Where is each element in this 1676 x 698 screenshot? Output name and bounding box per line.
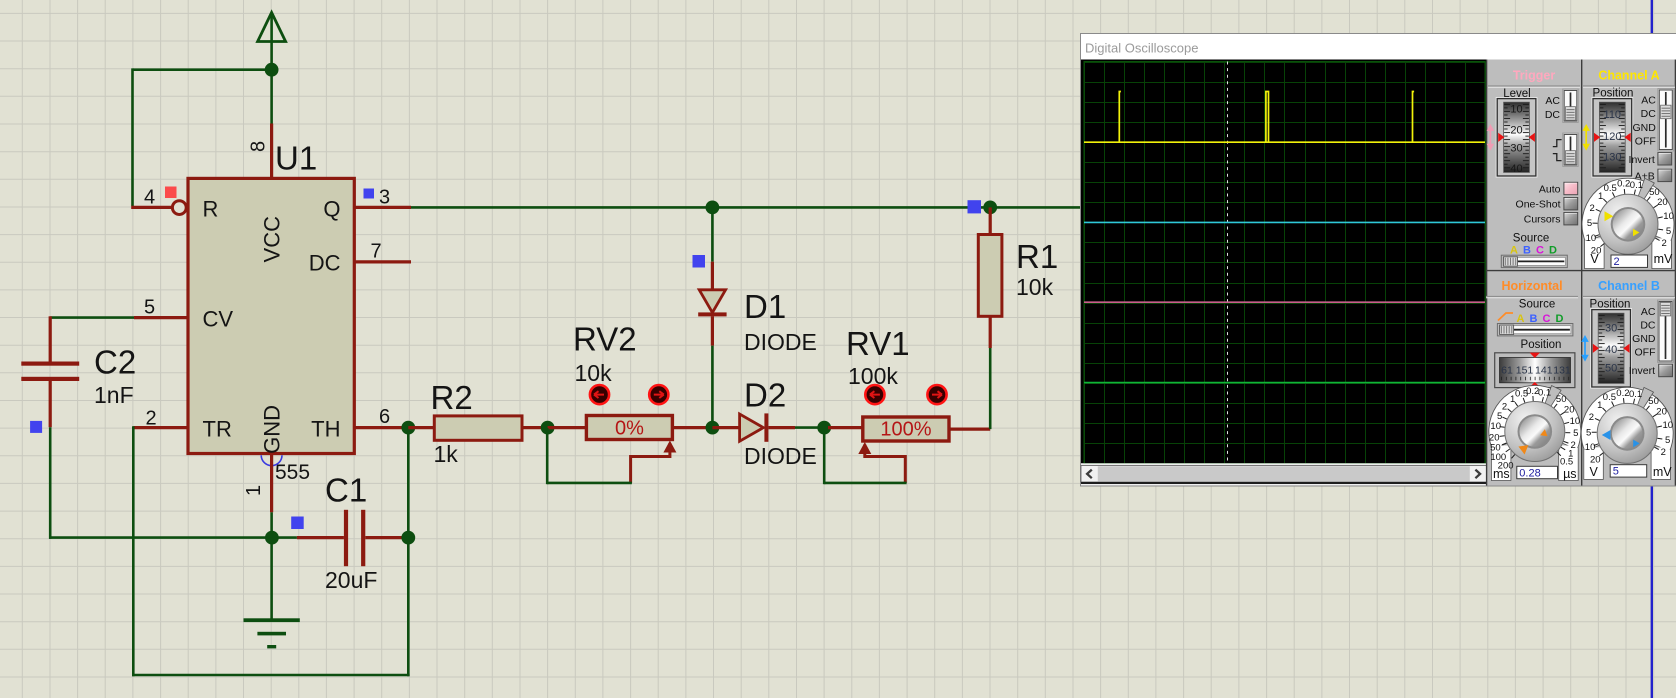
oscilloscope screen — [1081, 60, 1487, 464]
RV1 wiper arrow — [858, 442, 905, 483]
Horizontal source slider — [1497, 324, 1573, 336]
svg-text:Invert: Invert — [1629, 154, 1655, 166]
svg-text:R: R — [203, 197, 219, 222]
svg-text:µs: µs — [1563, 467, 1576, 481]
svg-text:CV: CV — [203, 307, 234, 332]
svg-text:5: 5 — [1573, 428, 1578, 439]
svg-text:1: 1 — [243, 485, 265, 496]
svg-text:2: 2 — [1502, 401, 1507, 412]
resistor R1 — [978, 207, 1002, 429]
capacitor C2 — [21, 316, 79, 539]
svg-text:0.28: 0.28 — [1519, 467, 1540, 479]
svg-text:Horizontal: Horizontal — [1501, 279, 1562, 293]
junction D1 bottom — [706, 421, 720, 435]
horizontal scrollbar — [1081, 463, 1487, 465]
svg-text:20: 20 — [1656, 406, 1667, 417]
svg-text:TR: TR — [203, 417, 232, 442]
svg-text:RV2: RV2 — [573, 321, 637, 358]
svg-text:V: V — [1590, 465, 1599, 479]
svg-text:5: 5 — [1666, 226, 1671, 237]
svg-text:RV1: RV1 — [846, 325, 910, 362]
pin 2 TR lead — [133, 426, 188, 429]
Horizontal timebase knob — [1489, 385, 1581, 449]
svg-text:3: 3 — [379, 187, 390, 209]
junction R2-RV2 — [541, 421, 555, 435]
capacitor C1 — [272, 510, 408, 566]
svg-text:1nF: 1nF — [94, 382, 134, 408]
svg-text:10: 10 — [1510, 103, 1522, 115]
Horizontal panel — [1486, 279, 1581, 481]
pin 1 lead — [270, 454, 273, 538]
svg-text:10k: 10k — [1016, 274, 1054, 300]
RV1 increment button — [927, 385, 946, 404]
ground — [244, 538, 300, 649]
svg-text:1: 1 — [1598, 191, 1603, 202]
svg-text:10: 10 — [1570, 416, 1581, 427]
pin 7 DC lead — [354, 260, 411, 263]
svg-text:0.2: 0.2 — [1616, 388, 1629, 399]
svg-text:10: 10 — [1585, 442, 1596, 453]
op-amp U1 555 timer body — [188, 178, 354, 453]
svg-text:0.5: 0.5 — [1604, 183, 1617, 194]
wire Q output net — [411, 206, 1082, 209]
svg-text:Q: Q — [323, 197, 340, 222]
svg-text:131: 131 — [1553, 365, 1571, 377]
junction C1 right — [401, 531, 415, 545]
svg-text:555: 555 — [275, 461, 310, 484]
svg-text:0%: 0% — [615, 418, 644, 440]
pin 5 CV lead — [134, 316, 188, 319]
power symbol VCC — [258, 13, 286, 70]
svg-text:0.5: 0.5 — [1603, 392, 1616, 403]
wire CV net — [50, 316, 134, 319]
channel D trace green — [1084, 382, 1485, 384]
Trigger panel — [1487, 69, 1580, 268]
svg-text:10: 10 — [1663, 211, 1674, 222]
svg-text:R2: R2 — [431, 379, 473, 416]
channel C trace pink — [1084, 301, 1485, 303]
blue probe at C2 — [30, 421, 42, 433]
svg-text:40: 40 — [1510, 163, 1522, 175]
svg-text:DIODE: DIODE — [744, 329, 817, 355]
window title bar — [1081, 34, 1676, 60]
svg-text:5: 5 — [1587, 218, 1592, 229]
wire TR down-left — [132, 426, 410, 676]
svg-text:Auto: Auto — [1539, 183, 1561, 195]
RV1 decrement button — [865, 385, 884, 404]
svg-text:GND: GND — [260, 405, 285, 454]
control panel area — [1487, 60, 1676, 486]
svg-text:100%: 100% — [880, 419, 931, 441]
svg-text:5: 5 — [1665, 435, 1670, 446]
svg-text:61: 61 — [1501, 365, 1513, 377]
svg-text:5: 5 — [1613, 466, 1619, 478]
Trigger AC/DC switch — [1563, 89, 1578, 122]
svg-text:Trigger: Trigger — [1513, 69, 1556, 83]
oscilloscope window frame — [1081, 34, 1676, 487]
svg-text:1: 1 — [1510, 394, 1515, 405]
svg-text:D1: D1 — [744, 288, 786, 325]
svg-text:AC: AC — [1641, 95, 1656, 107]
diode D2 — [712, 413, 820, 441]
svg-text:7: 7 — [371, 241, 382, 263]
svg-text:TH: TH — [311, 417, 340, 442]
svg-text:Source: Source — [1519, 299, 1555, 311]
svg-text:30: 30 — [1605, 323, 1617, 335]
svg-text:30: 30 — [1510, 143, 1522, 155]
channel A trace yellow — [1084, 92, 1485, 143]
Channel A coupling switch — [1658, 89, 1674, 151]
svg-text:2: 2 — [1589, 412, 1594, 423]
svg-text:AC: AC — [1545, 95, 1560, 107]
svg-text:20: 20 — [1564, 404, 1575, 415]
svg-text:OFF: OFF — [1635, 135, 1656, 147]
Channel B panel — [1581, 279, 1675, 479]
svg-text:2: 2 — [1661, 447, 1666, 458]
svg-text:10: 10 — [1490, 421, 1501, 432]
Channel B coupling switch — [1658, 300, 1674, 362]
svg-text:40: 40 — [1605, 344, 1617, 356]
svg-text:4: 4 — [144, 187, 155, 209]
svg-text:151: 151 — [1516, 365, 1534, 377]
svg-text:DC: DC — [1641, 108, 1657, 120]
RV2 decrement button — [590, 385, 609, 404]
Channel A panel — [1582, 69, 1675, 269]
svg-text:D2: D2 — [744, 377, 786, 414]
svg-text:6: 6 — [379, 406, 390, 428]
resistor R2 — [408, 426, 434, 429]
svg-text:141: 141 — [1535, 365, 1553, 377]
blue probe at D1 — [693, 255, 706, 268]
RV2 increment button — [649, 385, 668, 404]
svg-text:2: 2 — [1661, 238, 1666, 249]
svg-text:C1: C1 — [325, 472, 367, 509]
svg-text:2: 2 — [1590, 203, 1595, 214]
wire C2 bottom to gnd node — [49, 536, 273, 539]
junction D1 top — [706, 201, 720, 215]
svg-text:ms: ms — [1493, 467, 1510, 481]
svg-text:130: 130 — [1603, 152, 1621, 164]
junction TH node — [401, 421, 415, 435]
junction D2-RV1 — [817, 421, 831, 435]
svg-text:Digital Oscilloscope: Digital Oscilloscope — [1085, 41, 1198, 56]
svg-text:0.1: 0.1 — [1538, 387, 1551, 398]
junction gnd node — [265, 531, 279, 545]
junction at VCC node — [265, 63, 279, 77]
blue probe at pin 3 — [364, 189, 375, 199]
svg-text:DC: DC — [309, 251, 341, 276]
svg-text:120: 120 — [1603, 131, 1621, 143]
potentiometer RV1 body — [828, 426, 863, 429]
svg-text:OFF: OFF — [1635, 347, 1656, 359]
svg-text:AC: AC — [1641, 306, 1656, 318]
svg-text:0.1: 0.1 — [1629, 389, 1642, 400]
svg-text:V: V — [1590, 252, 1599, 266]
wire TH down to C1 — [407, 428, 410, 538]
svg-text:mV: mV — [1653, 465, 1672, 479]
svg-text:GND: GND — [1632, 122, 1656, 134]
wire blue vertical net — [1651, 0, 1653, 698]
svg-text:mV: mV — [1654, 252, 1673, 266]
edge select switch — [1563, 133, 1578, 166]
svg-text:GND: GND — [1632, 333, 1656, 345]
diode D1 — [698, 207, 726, 429]
svg-text:C2: C2 — [94, 344, 136, 381]
svg-text:110: 110 — [1604, 109, 1622, 121]
svg-text:U1: U1 — [275, 140, 317, 177]
wire pin4 reset — [131, 206, 172, 209]
svg-text:10k: 10k — [575, 360, 613, 386]
svg-text:20: 20 — [1590, 454, 1601, 465]
wire VCC to reset loop — [133, 68, 273, 206]
RV2 wiper arrow — [631, 441, 677, 484]
blue probe at C1 — [291, 517, 304, 530]
svg-text:One-Shot: One-Shot — [1516, 198, 1561, 210]
svg-text:Position: Position — [1521, 339, 1562, 351]
pin 6 TH lead — [354, 426, 409, 429]
pin R inversion bubble — [172, 201, 186, 215]
svg-text:DIODE: DIODE — [744, 443, 817, 469]
Channel A gain knob — [1582, 178, 1674, 242]
svg-text:0.1: 0.1 — [1630, 180, 1643, 191]
RV1 wiper wire to left node — [824, 428, 906, 484]
svg-text:2: 2 — [1614, 256, 1620, 268]
RV2 wiper wire to left node — [547, 428, 632, 484]
svg-text:1k: 1k — [434, 441, 459, 467]
svg-text:20: 20 — [1510, 125, 1522, 137]
Channel B gain knob — [1581, 387, 1673, 451]
svg-text:Channel A: Channel A — [1598, 69, 1659, 83]
svg-text:Invert: Invert — [1629, 365, 1655, 377]
svg-text:8: 8 — [248, 141, 270, 152]
svg-text:10: 10 — [1663, 420, 1674, 431]
cursor dashed line — [1227, 62, 1229, 464]
svg-text:Source: Source — [1513, 233, 1549, 245]
blue arc at GND pin — [261, 455, 282, 465]
svg-text:10: 10 — [1586, 233, 1597, 244]
svg-text:Cursors: Cursors — [1524, 213, 1561, 225]
svg-text:1: 1 — [1597, 400, 1602, 411]
channel B trace cyan — [1084, 221, 1485, 223]
potentiometer RV2 body — [548, 426, 587, 429]
svg-text:0.5: 0.5 — [1560, 456, 1573, 467]
svg-text:100k: 100k — [848, 363, 898, 389]
wire VCC to pin 8 — [270, 70, 273, 178]
screen graticule — [1084, 62, 1486, 465]
svg-text:20: 20 — [1657, 197, 1668, 208]
pin 3 lead — [354, 206, 411, 209]
svg-text:20uF: 20uF — [325, 567, 377, 593]
svg-text:DC: DC — [1640, 319, 1656, 331]
svg-text:Channel B: Channel B — [1598, 279, 1660, 293]
red marker at pin 4 — [165, 187, 177, 199]
svg-text:5: 5 — [1586, 427, 1591, 438]
svg-text:5: 5 — [144, 297, 155, 319]
svg-text:0.2: 0.2 — [1617, 179, 1630, 190]
svg-text:50: 50 — [1605, 363, 1617, 375]
svg-text:R1: R1 — [1016, 238, 1058, 275]
junction R1 top — [983, 201, 997, 215]
svg-text:DC: DC — [1545, 109, 1561, 121]
blue probe before R1 — [968, 200, 982, 213]
svg-text:VCC: VCC — [260, 216, 285, 263]
